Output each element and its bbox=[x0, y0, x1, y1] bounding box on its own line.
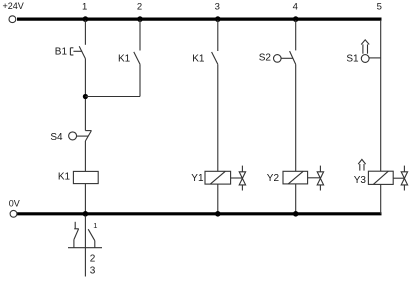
junction dot node 3 top bbox=[215, 16, 221, 22]
wire rung5 Y3 to 0V rail bbox=[380, 184, 382, 213]
contact S4 (NC) bbox=[85, 131, 91, 141]
svg-text:K1: K1 bbox=[118, 54, 131, 65]
svg-text:2: 2 bbox=[137, 2, 142, 13]
junction dot node 4 bottom bbox=[293, 211, 299, 217]
svg-text:S2: S2 bbox=[259, 53, 272, 64]
svg-text:K1: K1 bbox=[192, 53, 205, 64]
wire rung4 contact to Y2 bbox=[295, 64, 297, 171]
svg-text:Y1: Y1 bbox=[191, 173, 204, 184]
wire rung3 contact to Y1 bbox=[217, 64, 219, 171]
solenoid coil Y1 bbox=[205, 171, 231, 184]
junction dot node 2 top bbox=[137, 16, 143, 22]
svg-text:+24V: +24V bbox=[3, 1, 24, 11]
contact mirror NC slot bbox=[74, 222, 79, 248]
contact mirror NO slot pin 1 bbox=[88, 229, 95, 248]
svg-text:2: 2 bbox=[90, 254, 96, 265]
S1 detent arrow bbox=[361, 40, 369, 54]
wire rung2 to rung1 junction bbox=[85, 96, 140, 98]
junction dot node 3 bottom bbox=[215, 211, 221, 217]
wire rung3 Y1 to 0V rail bbox=[217, 184, 219, 214]
svg-text:1: 1 bbox=[82, 2, 87, 13]
svg-text:3: 3 bbox=[215, 2, 220, 13]
junction dot node 4 top bbox=[293, 16, 299, 22]
svg-text:3: 3 bbox=[90, 265, 96, 276]
S2 pushbutton actuator bbox=[274, 55, 293, 63]
terminal 0V bbox=[10, 210, 17, 217]
wire rung3 top to K1 contact bbox=[217, 20, 219, 51]
wire rung2 contact down bbox=[139, 64, 141, 96]
relay coil K1 bbox=[73, 171, 98, 183]
wire contact mirror stem bbox=[84, 216, 86, 277]
S1 detent switch actuator bbox=[361, 55, 380, 63]
solenoid coil Y3 bbox=[368, 171, 393, 184]
solenoid coil Y2 bbox=[283, 171, 308, 184]
svg-text:1: 1 bbox=[93, 221, 97, 230]
wire rung1 B1 to S4 bbox=[84, 59, 86, 131]
wire rung1 S4 to K1 coil bbox=[84, 141, 86, 171]
Y3 detent arrow bbox=[358, 159, 365, 170]
wire rung4 Y2 to 0V rail bbox=[295, 184, 297, 214]
B1 bracket actuator bbox=[70, 48, 82, 55]
terminal +24V bbox=[9, 16, 16, 23]
Y2 valve symbol bbox=[308, 166, 324, 191]
0V supply rail bbox=[17, 212, 382, 215]
svg-text:S4: S4 bbox=[50, 132, 63, 143]
S4 pushbutton actuator bbox=[69, 132, 89, 140]
wire rung5 top to Y3 bbox=[380, 20, 382, 171]
svg-text:Y3: Y3 bbox=[354, 175, 367, 186]
svg-text:0V: 0V bbox=[9, 198, 20, 208]
wire rung1 K1 coil to 0V rail bbox=[84, 184, 86, 214]
svg-text:K1: K1 bbox=[58, 172, 71, 183]
svg-text:Y2: Y2 bbox=[267, 173, 280, 184]
contact K1 rung3 (NO) bbox=[212, 52, 218, 64]
contact B1 (NO) bbox=[79, 46, 85, 58]
contact K1 rung2 (NO) bbox=[134, 52, 140, 64]
svg-text:S1: S1 bbox=[346, 53, 359, 64]
junction dot node 1 bottom bbox=[83, 211, 89, 217]
Y1 valve symbol bbox=[231, 166, 246, 191]
svg-text:5: 5 bbox=[377, 2, 382, 13]
svg-text:4: 4 bbox=[293, 2, 298, 13]
Y3 valve symbol bbox=[393, 166, 407, 191]
contact mirror crossbar bbox=[68, 247, 102, 249]
wire rung2 top to K1 contact bbox=[139, 20, 141, 51]
wire rung1 top to B1 bbox=[84, 20, 86, 45]
junction dot node 1 top bbox=[83, 16, 89, 22]
svg-text:B1: B1 bbox=[55, 47, 68, 58]
contact S2 (NO) bbox=[290, 51, 296, 64]
+24V supply rail bbox=[17, 18, 382, 21]
junction dot node rung1-rung2 bbox=[83, 94, 88, 99]
wire rung4 top to S2 contact bbox=[295, 20, 297, 50]
